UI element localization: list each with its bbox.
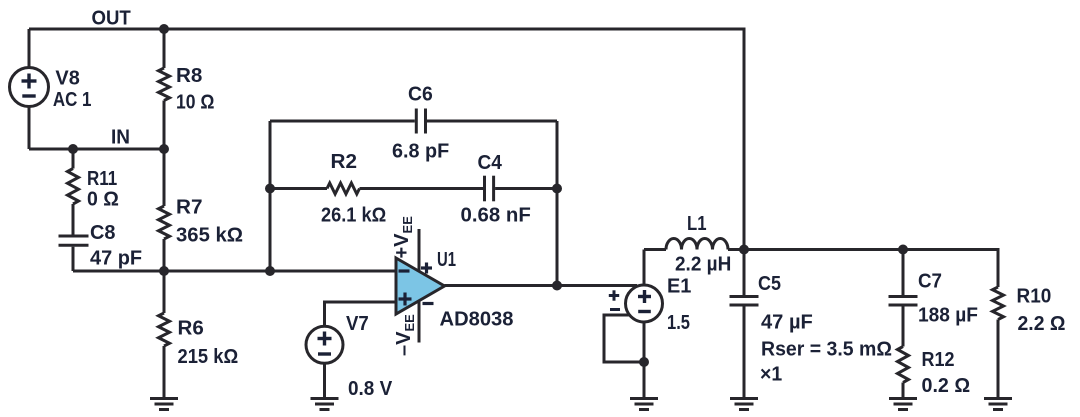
wire V7 bottom lead (323, 363, 326, 398)
ground V7 (311, 399, 339, 410)
svg-text:Rser = 3.5 mΩ: Rser = 3.5 mΩ (761, 339, 892, 361)
svg-text:C4: C4 (478, 152, 503, 174)
inductor L1 (644, 248, 666, 251)
node feedback right mid junction (552, 184, 562, 194)
resistor R2 (270, 187, 327, 190)
wire output rail right (744, 250, 998, 288)
svg-text:R8: R8 (176, 65, 202, 87)
svg-text:E1: E1 (667, 276, 691, 298)
capacitor C5 (743, 250, 746, 296)
svg-text:R11: R11 (87, 168, 117, 190)
svg-text:0 Ω: 0 Ω (87, 188, 119, 210)
svg-text:188 µF: 188 µF (918, 305, 978, 327)
ground C5 (730, 399, 758, 410)
wire V7 to non-inverting input (325, 302, 397, 326)
svg-text:IN: IN (111, 127, 130, 149)
svg-text:47 pF: 47 pF (90, 248, 142, 270)
voltage source V8 (10, 68, 49, 107)
ground R6 (150, 399, 178, 410)
svg-text:V8: V8 (55, 67, 79, 89)
node L1/C5 junction (739, 245, 749, 255)
op-amp non-inverting input sign (399, 297, 412, 300)
svg-text:0.2 Ω: 0.2 Ω (922, 375, 971, 397)
voltage source V7 (306, 326, 343, 363)
svg-text:×1: ×1 (760, 364, 782, 386)
node E1 bottom junction (639, 357, 649, 367)
node OUT/R8 junction (159, 24, 169, 34)
resistor R8 (163, 29, 166, 68)
node R6/R7/C8 junction (159, 266, 169, 276)
wire E1 top lead (643, 250, 646, 286)
resistor R7 (163, 149, 166, 206)
resistor R10 (993, 287, 1004, 320)
wire op-amp output (445, 284, 638, 287)
svg-text:26.1 kΩ: 26.1 kΩ (321, 205, 386, 227)
op-amp supply minus sign (423, 302, 434, 305)
E1 control plus sign (609, 290, 620, 309)
node C7 junction (898, 245, 908, 255)
svg-text:R7: R7 (176, 197, 203, 219)
svg-text:R6: R6 (178, 318, 204, 340)
capacitor C8 (59, 235, 89, 238)
op-amp U1 (396, 258, 445, 314)
svg-text:C6: C6 (408, 84, 433, 106)
node op-amp output junction (552, 281, 562, 291)
dependent source E1 (626, 285, 663, 322)
svg-text:365 kΩ: 365 kΩ (176, 225, 243, 247)
op-amp negative supply lead (418, 301, 421, 343)
ground R12 (889, 399, 917, 410)
svg-text:AD8038: AD8038 (440, 309, 514, 331)
op-amp positive supply lead (418, 229, 421, 272)
capacitor C7 (902, 250, 905, 296)
resistor R6 (163, 271, 166, 313)
svg-text:47 µF: 47 µF (761, 312, 813, 334)
svg-text:2.2 µH: 2.2 µH (675, 254, 731, 276)
capacitor C4 (360, 187, 484, 190)
svg-text:215 kΩ: 215 kΩ (178, 346, 239, 368)
svg-text:AC 1: AC 1 (53, 89, 92, 111)
wire inverting-input rail (73, 270, 396, 273)
ground R10 (984, 399, 1012, 410)
node IN/R7 junction (159, 144, 169, 154)
wire feedback box right vertical (556, 121, 559, 286)
op-amp supply plus sign (421, 266, 432, 269)
svg-text:C5: C5 (758, 273, 781, 295)
ground E1 (630, 399, 658, 410)
wire V8 top lead (28, 29, 31, 68)
wire E1 control minus loop (604, 315, 644, 362)
wire E1 bottom lead (643, 322, 646, 399)
node IN/R11 junction (68, 144, 78, 154)
E1 control minus sign (610, 308, 620, 311)
node feedback left bottom junction (265, 266, 275, 276)
svg-text:R2: R2 (331, 151, 358, 173)
wire V8 bottom lead (28, 107, 31, 150)
resistor R12 (898, 347, 909, 383)
svg-text:L1: L1 (687, 213, 707, 235)
svg-text:OUT: OUT (92, 8, 131, 30)
svg-text:R10: R10 (1017, 286, 1052, 308)
svg-text:1.5: 1.5 (667, 312, 690, 334)
node feedback left mid junction (265, 184, 275, 194)
resistor R11 (72, 149, 75, 169)
op-amp inverting input sign (399, 269, 410, 272)
svg-text:0.8 V: 0.8 V (348, 378, 393, 400)
svg-text:U1: U1 (437, 249, 456, 271)
svg-text:R12: R12 (922, 349, 955, 371)
svg-text:10 Ω: 10 Ω (176, 92, 214, 114)
capacitor C6 (270, 120, 415, 123)
svg-text:6.8 pF: 6.8 pF (392, 141, 449, 163)
wire IN rail (29, 148, 164, 151)
svg-text:0.68 nF: 0.68 nF (461, 205, 531, 227)
svg-text:2.2 Ω: 2.2 Ω (1018, 313, 1066, 335)
svg-text:V7: V7 (346, 313, 369, 335)
svg-text:C8: C8 (90, 222, 116, 244)
wire top OUT rail (29, 29, 744, 250)
wire feedback box left vertical (269, 121, 272, 271)
svg-text:C7: C7 (918, 271, 942, 293)
